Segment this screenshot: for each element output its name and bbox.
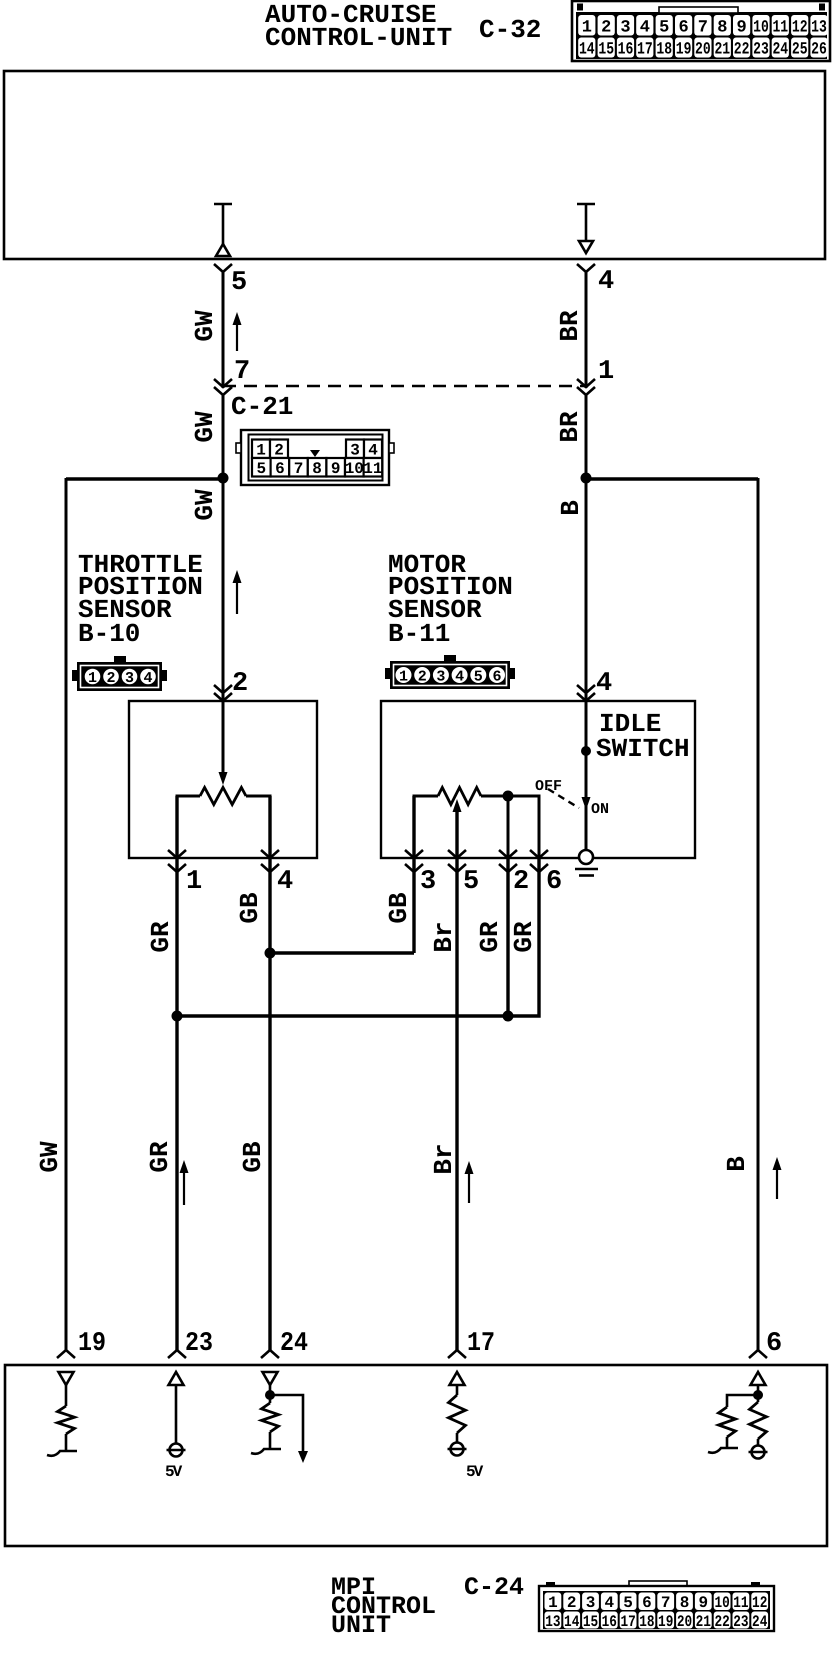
wire GB pin3 down (412, 796, 415, 953)
wire B right vertical (757, 478, 760, 1350)
svg-text:1: 1 (88, 670, 97, 687)
pin 24 ground arrow (298, 1451, 308, 1463)
svg-text:5: 5 (623, 1594, 633, 1612)
svg-text:10: 10 (345, 460, 364, 478)
pin 23 output triangle (169, 1372, 184, 1385)
svg-text:B: B (722, 1156, 752, 1172)
pin 6 wire internal (757, 1385, 760, 1402)
pin 6 junction dot (753, 1390, 763, 1400)
svg-text:18: 18 (639, 1613, 654, 1631)
svg-text:16: 16 (602, 1613, 617, 1631)
wire GW pin5 to C-21 (222, 272, 225, 388)
pin 17 output triangle (450, 1372, 465, 1385)
svg-text:1: 1 (256, 442, 266, 460)
svg-text:9: 9 (736, 18, 746, 37)
pin 24 input triangle (263, 1372, 278, 1385)
TPS potentiometer resistor (200, 788, 246, 805)
svg-text:BR: BR (555, 310, 585, 342)
throttle position sensor box (129, 701, 317, 858)
svg-text:10: 10 (714, 1594, 729, 1612)
svg-text:11: 11 (363, 460, 382, 478)
TPS pin 1 crossing (168, 850, 186, 858)
pin 23 wire internal (175, 1385, 178, 1444)
pin 6 wire to supply (757, 1439, 760, 1446)
motor position sensor box (381, 701, 695, 858)
svg-text:2: 2 (513, 867, 529, 897)
svg-text:12: 12 (792, 18, 808, 37)
svg-text:17: 17 (637, 41, 653, 60)
svg-text:20: 20 (677, 1613, 692, 1631)
svg-text:3: 3 (620, 18, 630, 37)
svg-text:5: 5 (256, 460, 266, 478)
svg-text:7: 7 (294, 460, 304, 478)
svg-text:GW: GW (35, 1141, 65, 1173)
wire GR pin2 down (506, 858, 509, 1016)
svg-text:GB: GB (384, 892, 414, 924)
svg-text:C-21: C-21 (231, 392, 293, 422)
svg-text:4: 4 (596, 669, 612, 699)
TPS pin 4 crossing (261, 850, 279, 858)
svg-text:3: 3 (420, 867, 436, 897)
motor pot wire to pin 3 (414, 796, 438, 858)
GR junction dot right (503, 1011, 514, 1022)
wire GR pin6 down (177, 858, 539, 1016)
svg-text:1: 1 (399, 669, 408, 686)
pin 19 wire internal (65, 1385, 68, 1406)
connector B-10 pinout (72, 656, 167, 691)
connector C-21 crossing left (214, 379, 232, 387)
pin 17 5V supply (448, 1443, 467, 1456)
pin 19 wire-end connector (57, 1350, 75, 1358)
svg-text:GR: GR (475, 921, 505, 953)
pin 6 wire-end connector (749, 1350, 767, 1358)
motor pin 2 crossing (499, 850, 517, 858)
wire GW C-21 to junction (222, 395, 225, 478)
TPS wiper arrow head (219, 772, 228, 785)
svg-text:3: 3 (125, 670, 134, 687)
pin 6 branch resistor (719, 1407, 736, 1437)
connector B-11 pinout (385, 655, 515, 689)
svg-text:13: 13 (811, 18, 827, 37)
TPS pin 2 crossing (214, 685, 232, 693)
svg-text:1: 1 (582, 18, 592, 37)
svg-text:2: 2 (567, 1594, 577, 1612)
svg-text:GW: GW (190, 411, 220, 443)
svg-text:23: 23 (185, 1329, 213, 1359)
pin 6 branch termination (708, 1448, 738, 1453)
svg-text:14: 14 (564, 1613, 580, 1631)
svg-text:5: 5 (474, 669, 483, 686)
svg-text:7: 7 (698, 18, 708, 37)
svg-text:5: 5 (463, 867, 479, 897)
pin 6 main resistor (750, 1402, 767, 1439)
svg-text:GR: GR (509, 921, 539, 953)
svg-text:25: 25 (792, 41, 808, 60)
pin 24 wire internal (269, 1385, 272, 1403)
svg-text:13: 13 (545, 1613, 560, 1631)
svg-text:3: 3 (586, 1594, 596, 1612)
motor pin 3 crossing (405, 850, 423, 858)
svg-text:20: 20 (695, 41, 711, 60)
svg-text:11: 11 (772, 18, 788, 37)
wire B junction to right branch (586, 477, 758, 481)
direction arrow up 2 (233, 570, 242, 614)
svg-text:26: 26 (811, 41, 827, 60)
svg-text:23: 23 (753, 41, 769, 60)
pin 24 termination (251, 1449, 281, 1454)
wire Br pin5 down (455, 810, 458, 1350)
GR junction dot left (172, 1011, 183, 1022)
svg-text:6: 6 (546, 867, 562, 897)
idle switch moving contact (582, 797, 591, 810)
svg-text:1: 1 (548, 1594, 558, 1612)
svg-text:8: 8 (680, 1594, 690, 1612)
svg-text:1: 1 (186, 867, 202, 897)
svg-text:4: 4 (604, 1594, 614, 1612)
svg-text:5V: 5V (466, 1463, 484, 1481)
svg-text:17: 17 (620, 1613, 635, 1631)
motor pin 5 crossing (448, 850, 466, 858)
motor pot wiper arrow (456, 810, 459, 858)
svg-text:4: 4 (598, 267, 614, 297)
svg-text:23: 23 (733, 1613, 748, 1631)
wire GB pin4 down (268, 796, 271, 1350)
svg-text:9: 9 (698, 1594, 708, 1612)
svg-text:6: 6 (642, 1594, 652, 1612)
svg-text:24: 24 (772, 41, 788, 60)
pin 23 wire-end connector (168, 1350, 186, 1358)
svg-text:14: 14 (579, 41, 595, 60)
connector C-32 pinout (572, 1, 830, 61)
svg-text:CONTROL-UNIT: CONTROL-UNIT (265, 23, 452, 53)
TPS wire to pin 1 (177, 796, 200, 858)
pin 19 wire to termination (65, 1434, 68, 1451)
idle switch junction dot (581, 746, 591, 756)
svg-text:15: 15 (583, 1613, 598, 1631)
pin 17 wire internal (456, 1385, 459, 1395)
svg-text:7: 7 (234, 357, 250, 387)
svg-text:2: 2 (232, 669, 248, 699)
svg-text:GW: GW (190, 489, 220, 521)
pin 24 wire to termination (269, 1432, 272, 1449)
svg-text:SWITCH: SWITCH (596, 734, 690, 764)
pin 4 stub (unit internal) (577, 203, 595, 206)
svg-text:Br: Br (429, 921, 459, 952)
svg-text:UNIT: UNIT (331, 1611, 391, 1640)
connector C-21 crossing right (577, 379, 595, 387)
pin 17 series resistor (449, 1395, 466, 1433)
svg-text:22: 22 (734, 41, 750, 60)
pin 6 supply circle (749, 1446, 768, 1459)
svg-text:6: 6 (275, 460, 285, 478)
svg-text:8: 8 (312, 460, 322, 478)
svg-text:12: 12 (752, 1594, 767, 1612)
pin 24 pull resistor (262, 1403, 279, 1432)
svg-text:BR: BR (555, 411, 585, 443)
idle switch OFF position (dashed) (548, 789, 579, 808)
connector C-24 pinout (539, 1581, 774, 1631)
idle switch ground (575, 868, 598, 871)
svg-text:OFF: OFF (535, 778, 562, 795)
svg-text:2: 2 (601, 18, 611, 37)
pin 4 wire-end connector (577, 264, 595, 272)
connector C-21 pinout (236, 430, 394, 485)
svg-text:C-32: C-32 (479, 15, 541, 45)
svg-text:11: 11 (733, 1594, 748, 1612)
svg-text:22: 22 (714, 1613, 729, 1631)
pin 24 wire-end connector (261, 1350, 279, 1358)
svg-text:GB: GB (235, 892, 265, 924)
wire GW junction to left branch (66, 477, 223, 481)
svg-text:17: 17 (467, 1329, 495, 1359)
svg-text:24: 24 (752, 1613, 768, 1631)
pin 5 wire-end connector (214, 264, 232, 272)
pin 17 wire-end connector (448, 1350, 466, 1358)
wire BR pin4 to C-21 (585, 272, 588, 388)
motor pin 6 crossing (530, 850, 548, 858)
svg-text:B: B (556, 500, 586, 516)
svg-text:5: 5 (231, 268, 247, 298)
pin 6 branch wire (727, 1395, 758, 1407)
svg-text:5V: 5V (165, 1463, 183, 1481)
svg-text:21: 21 (696, 1613, 711, 1631)
pin 6 output triangle (751, 1372, 766, 1385)
svg-text:2: 2 (106, 670, 115, 687)
svg-text:18: 18 (656, 41, 672, 60)
svg-text:GW: GW (190, 310, 220, 342)
TPS wire to pin 4 (246, 796, 270, 858)
direction arrow B (773, 1157, 782, 1199)
svg-text:2: 2 (274, 442, 284, 460)
svg-text:B-10: B-10 (78, 619, 140, 649)
C-21 dashed connector line (223, 385, 586, 387)
svg-text:4: 4 (455, 669, 464, 686)
junction node B (581, 473, 592, 484)
svg-text:GB: GB (238, 1141, 268, 1173)
svg-text:1: 1 (598, 357, 614, 387)
svg-text:7: 7 (661, 1594, 671, 1612)
svg-text:GR: GR (146, 921, 176, 953)
svg-text:19: 19 (658, 1613, 673, 1631)
pin 5 stub (unit internal) (214, 203, 232, 206)
svg-text:GR: GR (145, 1141, 175, 1173)
pin 17 wire to supply (456, 1433, 459, 1443)
svg-text:5: 5 (659, 18, 669, 37)
svg-text:ON: ON (591, 801, 609, 818)
svg-text:19: 19 (78, 1329, 106, 1359)
junction node GW (218, 473, 229, 484)
wire B junction to idle switch (585, 478, 588, 850)
pin 23 5V supply (167, 1444, 186, 1457)
GB link wire (268, 951, 414, 954)
pin 24 ground branch (270, 1395, 303, 1452)
direction arrow GR (180, 1160, 189, 1205)
idle switch pivot contact (579, 850, 593, 864)
svg-text:3: 3 (436, 669, 445, 686)
svg-text:2: 2 (418, 669, 427, 686)
wire GW left vertical (65, 478, 68, 1350)
wire GR pin1 down (175, 796, 178, 1350)
direction arrow up (233, 312, 242, 351)
svg-text:19: 19 (676, 41, 692, 60)
svg-text:8: 8 (717, 18, 727, 37)
svg-text:4: 4 (640, 18, 650, 37)
pin 6 branch wire 2 (726, 1437, 729, 1448)
svg-text:4: 4 (277, 867, 293, 897)
svg-text:9: 9 (331, 460, 341, 478)
svg-text:4: 4 (368, 442, 378, 460)
pin 19 input triangle (59, 1372, 74, 1385)
svg-text:15: 15 (598, 41, 614, 60)
svg-text:16: 16 (618, 41, 634, 60)
pin 19 termination (47, 1451, 77, 1456)
svg-text:21: 21 (714, 41, 730, 60)
svg-text:6: 6 (766, 1329, 782, 1359)
svg-text:24: 24 (280, 1329, 308, 1359)
svg-text:Br: Br (429, 1143, 459, 1174)
pin 19 pull resistor (58, 1406, 75, 1434)
motor pot resistor (438, 788, 481, 805)
wire GW junction to TPS pin2 (222, 478, 225, 773)
motor pot junction dot (503, 791, 514, 802)
MPI control unit box (5, 1365, 827, 1546)
svg-text:6: 6 (678, 18, 688, 37)
pin 24 junction dot (265, 1390, 275, 1400)
direction arrow Br (465, 1161, 474, 1203)
motor pot wire to pin 2 (507, 796, 510, 858)
svg-text:6: 6 (492, 669, 501, 686)
motor pin 4 crossing (577, 685, 595, 693)
motor pot wire right rail (481, 796, 539, 858)
svg-text:3: 3 (350, 442, 360, 460)
svg-text:C-24: C-24 (464, 1573, 524, 1602)
wire BR C-21 to junction (585, 395, 588, 478)
svg-text:4: 4 (143, 670, 152, 687)
svg-text:B-11: B-11 (388, 619, 450, 649)
svg-text:10: 10 (753, 18, 769, 37)
auto-cruise control unit box (4, 71, 825, 259)
GB junction dot (265, 948, 276, 959)
